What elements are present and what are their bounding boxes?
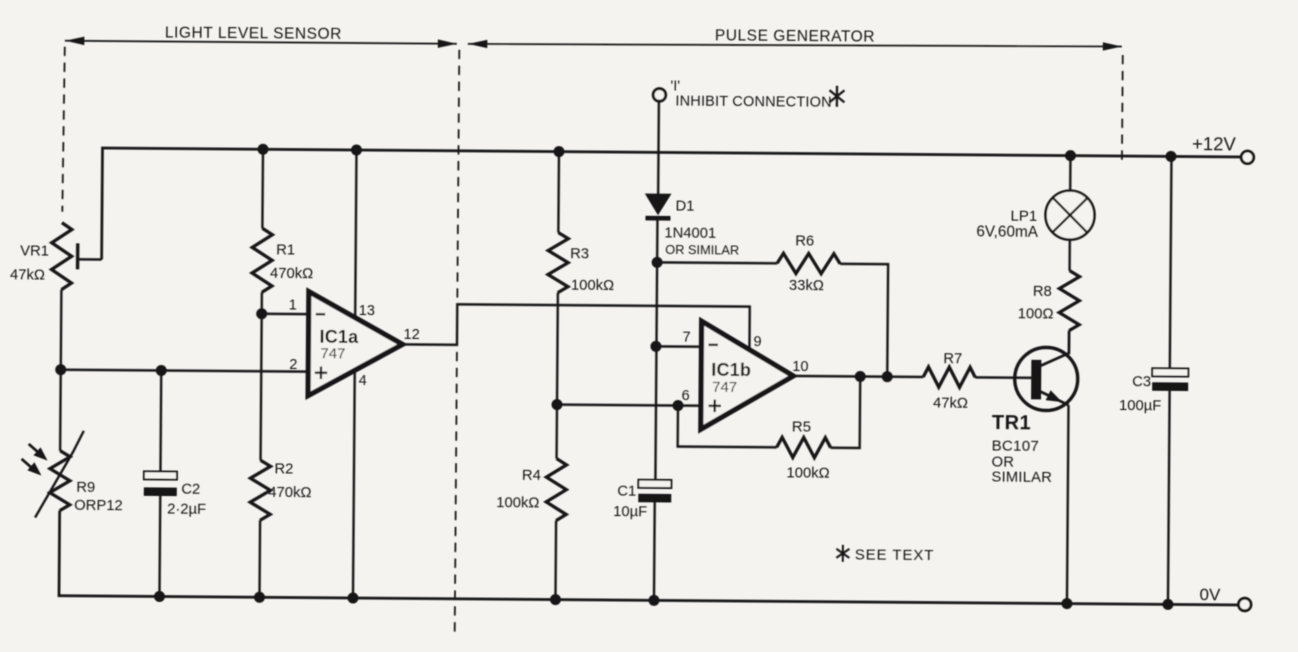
junction C3 top on +12V rail [1165, 151, 1176, 162]
svg-text:BC107: BC107 [992, 438, 1040, 455]
junction IC1b pin 6 wire / R4 top [551, 399, 562, 410]
+12V terminal [1192, 133, 1254, 164]
svg-text:13: 13 [359, 303, 375, 319]
wire pin 1 [262, 313, 309, 316]
0V rail wire [59, 511, 1239, 605]
potentiometer VR1 [10, 222, 102, 290]
junction R1 top on +12V rail [257, 144, 268, 155]
resistor R5 feedback [677, 375, 860, 482]
wire IC1a pin 12 output to IC1b pin 9 [402, 304, 749, 350]
svg-text:R9: R9 [76, 480, 95, 496]
svg-text:4: 4 [359, 373, 367, 389]
svg-text:C3: C3 [1132, 374, 1151, 390]
wire pin 7 [656, 345, 701, 348]
light arrow 1 into R9 [29, 444, 40, 454]
resistor R4 [495, 404, 567, 600]
svg-text:R5: R5 [792, 418, 811, 435]
svg-text:R4: R4 [522, 468, 541, 484]
svg-text:INHIBIT CONNECTION: INHIBIT CONNECTION [675, 94, 832, 111]
junction C1 bottom on 0V rail [648, 595, 659, 606]
svg-text:2: 2 [289, 357, 297, 373]
svg-text:2·2µF: 2·2µF [167, 502, 206, 518]
svg-text:PULSE GENERATOR: PULSE GENERATOR [715, 27, 875, 45]
svg-text:LIGHT LEVEL SENSOR: LIGHT LEVEL SENSOR [165, 25, 342, 43]
resistor R1 [252, 149, 314, 292]
transistor TR1 BC107 [991, 330, 1078, 486]
resistor R6 [656, 232, 888, 376]
svg-text:0V: 0V [1199, 585, 1221, 604]
op-amp IC1a [288, 291, 420, 396]
svg-text:10µF: 10µF [613, 504, 647, 520]
section boundary dashed line centre [455, 50, 460, 636]
capacitor C3 [1117, 156, 1190, 605]
svg-text:VR1: VR1 [20, 243, 49, 259]
svg-text:12: 12 [403, 327, 419, 343]
asterisk marker top [829, 86, 844, 107]
section boundary dashed line left [62, 47, 64, 212]
junction D1/R6 node [652, 257, 663, 268]
svg-text:10: 10 [792, 359, 808, 375]
capacitor C1 [612, 480, 671, 601]
junction R5 to output [855, 371, 866, 382]
op-amp IC1b [681, 321, 808, 430]
svg-text:6V,60mA: 6V,60mA [976, 223, 1038, 240]
svg-text:470kΩ: 470kΩ [270, 266, 313, 282]
section label LIGHT LEVEL SENSOR [65, 24, 457, 48]
section boundary dashed line right [1121, 55, 1124, 165]
svg-text:100Ω: 100Ω [1018, 306, 1054, 322]
svg-text:7: 7 [682, 330, 690, 346]
wire R1 to R2 through pin 1 node [261, 292, 262, 460]
junction C3 bottom on 0V rail [1162, 599, 1173, 610]
terminal I inhibit connection [653, 78, 832, 110]
junction LP1 top on +12V rail [1065, 150, 1076, 161]
svg-text:9: 9 [753, 334, 761, 350]
junction R5 loop at pin 6 [672, 400, 683, 411]
lamp LP1 [976, 155, 1095, 241]
svg-text:R2: R2 [274, 461, 293, 477]
svg-text:ORP12: ORP12 [74, 498, 123, 514]
svg-text:R7: R7 [943, 351, 962, 367]
junction R6 to output [882, 371, 893, 382]
wire D1 cathode down to C1 [655, 220, 657, 479]
wire I terminal to D1 (crosses +12V rail, no connection) [657, 101, 660, 194]
svg-text:OR: OR [991, 455, 1014, 471]
light arrow 2 into R9 [21, 459, 32, 469]
svg-text:470kΩ: 470kΩ [268, 485, 311, 501]
svg-text:1N4001: 1N4001 [664, 225, 716, 241]
svg-text:+12V: +12V [1192, 133, 1237, 154]
svg-text:100kΩ: 100kΩ [496, 495, 539, 511]
wire TR1 emitter to 0V rail [1067, 405, 1069, 603]
junction C2 bottom on 0V rail [154, 591, 165, 602]
resistor R8 [1018, 239, 1080, 330]
svg-text:R3: R3 [570, 246, 589, 262]
svg-text:6: 6 [682, 388, 690, 404]
svg-text:C2: C2 [181, 482, 200, 498]
svg-text:'I': 'I' [670, 78, 680, 94]
resistor R3 [547, 152, 615, 406]
resistor R2 [249, 460, 311, 597]
wire R4 node to IC1b pin 6 (crosses C1 lead, no connection) [557, 405, 701, 406]
svg-text:47kΩ: 47kΩ [10, 267, 45, 283]
asterisk marker bottom [836, 545, 849, 562]
svg-text:IC1b: IC1b [711, 360, 751, 380]
svg-text:747: 747 [320, 345, 345, 362]
junction emitter on 0V rail [1061, 598, 1072, 609]
section label PULSE GENERATOR [468, 25, 1122, 53]
junction pin13 wire on +12V rail [351, 144, 362, 155]
capacitor C2 [143, 370, 207, 596]
svg-text:1: 1 [289, 297, 297, 313]
svg-text:R8: R8 [1033, 284, 1052, 300]
+12V supply rail wire [102, 148, 1241, 268]
svg-text:SEE TEXT: SEE TEXT [855, 546, 935, 564]
junction R4 bottom on 0V rail [550, 594, 561, 605]
svg-text:LP1: LP1 [1010, 208, 1037, 225]
svg-text:47kΩ: 47kΩ [933, 396, 968, 412]
wire IC1b pin 10 output to TR1 base [793, 376, 923, 377]
junction pin4 wire on 0V rail [347, 592, 358, 603]
svg-text:100kΩ: 100kΩ [571, 278, 614, 294]
svg-text:OR SIMILAR: OR SIMILAR [665, 242, 739, 258]
wire VR1 to node A [60, 290, 61, 451]
svg-text:R6: R6 [795, 233, 814, 249]
svg-text:747: 747 [712, 379, 737, 396]
svg-text:100µF: 100µF [1119, 398, 1161, 414]
svg-text:D1: D1 [675, 199, 694, 215]
photoresistor R9 ORP12 [21, 430, 123, 518]
svg-text:SIMILAR: SIMILAR [991, 470, 1052, 486]
junction IC1a pin 1 [256, 308, 267, 319]
svg-text:33kΩ: 33kΩ [789, 278, 824, 294]
diode D1 1N4001 [645, 194, 739, 257]
junction R2 bottom on 0V rail [254, 592, 265, 603]
svg-text:C1: C1 [617, 484, 636, 500]
node A junction (VR1/R9/IC1a pin2 wire) [55, 364, 66, 375]
svg-text:TR1: TR1 [992, 412, 1031, 434]
0V terminal [1199, 585, 1251, 611]
junction R3 top on +12V rail [553, 146, 564, 157]
svg-text:R1: R1 [276, 242, 295, 258]
svg-text:IC1a: IC1a [319, 327, 359, 347]
junction C2 top [156, 365, 167, 376]
svg-text:100kΩ: 100kΩ [786, 465, 829, 481]
wire IC1a pin13/pin4 vertical [353, 150, 357, 598]
resistor R7 [923, 351, 1031, 412]
junction IC1b pin 7 node [650, 341, 661, 352]
wire node A to IC1a pin 2 [61, 370, 308, 372]
